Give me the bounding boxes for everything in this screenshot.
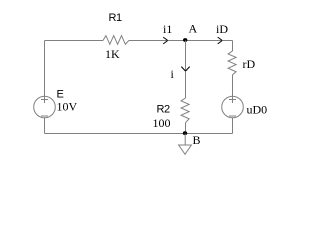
svg-text:R2: R2 <box>157 104 170 116</box>
node A <box>183 38 187 42</box>
wire: bottom rail <box>45 133 233 135</box>
resistor rD <box>228 51 236 75</box>
wire: middle vertical from node A to R2 <box>185 41 187 99</box>
svg-text:100: 100 <box>153 116 171 130</box>
resistor R1 <box>103 36 129 45</box>
arrow i1 <box>163 37 167 44</box>
svg-text:R1: R1 <box>109 12 122 24</box>
wire: left bottom vertical from E to bottom rail <box>44 118 46 134</box>
svg-text:iD: iD <box>216 22 228 36</box>
svg-text:i: i <box>171 67 175 81</box>
wire: middle vertical from R2 to node B <box>185 123 187 134</box>
wire: top left horizontal from corner to R1 <box>45 40 104 42</box>
ground <box>179 134 192 155</box>
svg-text:uD0: uD0 <box>247 103 268 117</box>
wire: left vertical from top corner down to E <box>44 41 46 97</box>
arrow i <box>181 67 189 71</box>
svg-text:10V: 10V <box>57 100 78 114</box>
wire: right bottom vertical from uD0 to bottom rail <box>232 118 234 134</box>
source uD0 <box>222 96 244 118</box>
wire: right vertical from rD to uD0 <box>232 75 234 97</box>
svg-text:B: B <box>193 133 201 147</box>
svg-text:rD: rD <box>243 57 256 71</box>
source E <box>34 96 56 118</box>
arrow iD <box>218 37 222 44</box>
svg-text:i1: i1 <box>163 22 172 36</box>
svg-text:1K: 1K <box>105 47 120 61</box>
wire: right vertical from top corner to rD <box>232 41 234 52</box>
wire: top horizontal from R1 to right corner <box>129 40 233 42</box>
svg-text:A: A <box>189 22 198 36</box>
resistor R2 <box>181 98 189 123</box>
node B <box>183 131 187 135</box>
